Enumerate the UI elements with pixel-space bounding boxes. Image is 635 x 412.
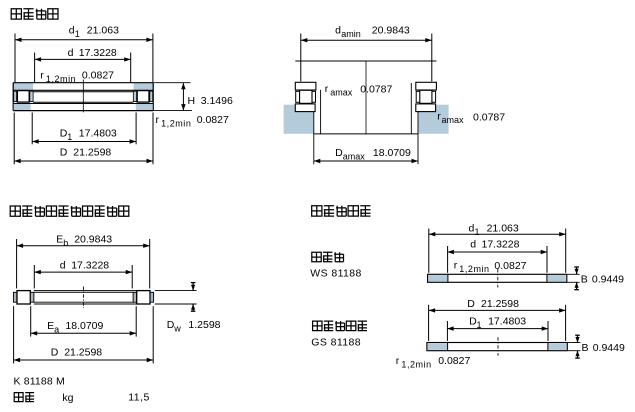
shaft washer WS: blue cross sections xyxy=(429,275,448,281)
svg-text:0.0827: 0.0827 xyxy=(438,355,470,367)
cage inner bar right xyxy=(133,292,137,302)
svg-text:d: d xyxy=(68,47,74,59)
housing washer GS: body xyxy=(427,343,567,351)
dim B (GS): arrows xyxy=(577,335,579,342)
dim Ea: extension lines xyxy=(30,306,32,336)
svg-text:20.9843: 20.9843 xyxy=(372,24,410,36)
svg-text:amax: amax xyxy=(343,152,366,162)
svg-text:0.0827: 0.0827 xyxy=(82,69,114,81)
svg-text:H: H xyxy=(188,95,196,107)
right column: shaft washer cross-section xyxy=(416,82,437,90)
dim d (WS): dimension line with arrows xyxy=(447,251,547,253)
cage middle section xyxy=(34,290,150,292)
svg-text:17.4803: 17.4803 xyxy=(488,315,526,327)
dim d1 (WS): extension lines xyxy=(428,229,430,273)
dim Dw: vertical dimension line with outside arrows xyxy=(192,283,194,291)
svg-text:B: B xyxy=(581,274,588,286)
svg-text:d: d xyxy=(335,24,341,36)
dim D1 (GS): extension lines xyxy=(446,321,448,341)
dim d (WS): extension lines xyxy=(447,246,449,273)
dim D: dimension line with arrows xyxy=(14,160,153,162)
right column: cage and roller xyxy=(416,91,420,102)
bearing shaft washer (top) with blue end sections xyxy=(14,83,33,90)
housing block left (blue) xyxy=(284,105,314,134)
dim B (GS): tick lines xyxy=(568,342,580,344)
dim D: extension lines xyxy=(13,113,15,165)
svg-text:21.2598: 21.2598 xyxy=(73,146,111,158)
svg-text:kg: kg xyxy=(62,392,73,404)
roller left xyxy=(17,291,30,304)
housing washer GS: centerline xyxy=(497,337,499,356)
mass label (Chinese) + kg + value xyxy=(14,393,34,402)
svg-text:1.2598: 1.2598 xyxy=(188,319,220,331)
svg-text:21.063: 21.063 xyxy=(87,24,119,36)
svg-text:1,2min: 1,2min xyxy=(401,360,431,370)
svg-text:1: 1 xyxy=(475,227,480,237)
dim Dw: tick lines xyxy=(155,290,197,292)
svg-text:1: 1 xyxy=(75,29,80,39)
svg-text:amax: amax xyxy=(442,115,465,125)
svg-text:r: r xyxy=(40,69,44,81)
svg-text:0.9449: 0.9449 xyxy=(592,274,624,286)
dim d1: extension lines xyxy=(14,34,16,83)
svg-text:1,2min: 1,2min xyxy=(459,264,489,274)
cage inner bar left xyxy=(30,292,34,302)
svg-text:D: D xyxy=(51,346,59,358)
inner bore vertical lines xyxy=(320,90,322,134)
svg-text:17.3228: 17.3228 xyxy=(71,259,109,271)
label: shaft washer (Chinese) WS 81188 xyxy=(312,252,344,261)
dim Eb: extension lines xyxy=(16,239,18,288)
figure centerline xyxy=(365,61,367,134)
svg-text:0.9449: 0.9449 xyxy=(593,342,625,354)
svg-text:0.0827: 0.0827 xyxy=(494,260,526,272)
svg-text:D: D xyxy=(60,146,68,158)
svg-text:K 81188 M: K 81188 M xyxy=(14,376,65,388)
svg-text:E: E xyxy=(56,234,63,246)
dim Eb: dimension line with arrows xyxy=(17,245,150,247)
dim Da_max: dimension line with arrows xyxy=(314,160,418,162)
left column: shaft washer cross-section xyxy=(295,82,316,90)
svg-text:17.3228: 17.3228 xyxy=(482,239,520,251)
dim H: vertical dimension line with arrows xyxy=(182,83,184,111)
dim H: tick lines xyxy=(153,82,190,84)
svg-text:d: d xyxy=(470,239,476,251)
svg-text:B: B xyxy=(582,342,589,354)
svg-text:1,2min: 1,2min xyxy=(161,119,191,129)
dim D (GS): extension lines xyxy=(428,305,430,341)
svg-text:11,5: 11,5 xyxy=(128,392,150,404)
svg-text:r: r xyxy=(156,114,160,126)
cage outer bar left xyxy=(13,292,17,302)
label: housing washer (Chinese) GS 81188 xyxy=(313,321,367,331)
dim d1: dimension line with arrows xyxy=(15,39,153,41)
svg-text:amin: amin xyxy=(341,29,361,39)
housing block right (blue) xyxy=(418,105,448,134)
svg-text:WS 81188: WS 81188 xyxy=(310,268,361,280)
svg-text:D: D xyxy=(467,298,475,310)
section title: complete bearing (Chinese) xyxy=(11,9,58,19)
cage outer bar right xyxy=(150,292,154,302)
svg-text:r: r xyxy=(325,83,329,95)
housing washer seat verticals (Da extension) xyxy=(313,112,315,165)
assembly centerline xyxy=(83,287,85,309)
svg-text:21.2598: 21.2598 xyxy=(481,298,519,310)
svg-text:0.0787: 0.0787 xyxy=(473,112,505,124)
dim D (GS): dimension line with arrows xyxy=(429,309,566,311)
dim d1 (WS): dimension line with arrows xyxy=(429,233,566,235)
dim d: extension lines xyxy=(34,53,36,83)
housing washer GS: blue cross sections xyxy=(428,343,448,350)
svg-text:1: 1 xyxy=(477,320,482,330)
svg-text:a: a xyxy=(54,325,59,335)
dim B (WS): tick lines xyxy=(567,273,579,275)
svg-text:r: r xyxy=(454,260,458,272)
dim D: dimension line with arrows (assembly) xyxy=(14,359,154,361)
svg-text:21.2598: 21.2598 xyxy=(64,346,102,358)
dim D: extension lines (assembly) xyxy=(13,306,15,363)
shaft face top line xyxy=(295,60,436,62)
svg-text:18.0709: 18.0709 xyxy=(373,147,411,159)
dim D1 (GS): dimension line with arrows xyxy=(447,328,548,330)
svg-text:0.0827: 0.0827 xyxy=(197,114,229,126)
svg-text:E: E xyxy=(47,320,54,332)
housing bore bottom face line xyxy=(314,133,418,135)
svg-text:amax: amax xyxy=(330,87,353,97)
svg-text:21.063: 21.063 xyxy=(487,223,519,235)
bearing vertical centerline xyxy=(82,80,84,113)
svg-text:17.3228: 17.3228 xyxy=(79,47,117,59)
svg-text:r: r xyxy=(396,355,400,367)
right column: housing washer cross-section xyxy=(416,104,436,112)
dim d: extension lines (assembly) xyxy=(33,265,35,288)
section title: roller and cage thrust assembly (Chinese) xyxy=(10,206,129,216)
shaft washer WS: centerline xyxy=(497,269,499,288)
dim B (WS): arrows xyxy=(576,267,578,274)
left column: cage and roller xyxy=(296,91,300,102)
dim d: dimension line with arrows (assembly) xyxy=(34,271,132,273)
bearing housing washer (bottom) with blue end sections xyxy=(14,104,31,110)
svg-text:18.0709: 18.0709 xyxy=(65,320,103,332)
dim Ea: dimension line with arrows xyxy=(31,332,137,334)
dim da_min: extension lines xyxy=(300,34,302,82)
roller and cage row of bearing xyxy=(14,91,17,101)
svg-text:1: 1 xyxy=(67,132,72,142)
roller right xyxy=(137,291,150,304)
dim D1: extension lines xyxy=(31,113,33,145)
shaft washer WS: body xyxy=(428,274,567,282)
dim da_min: dimension line with arrows xyxy=(301,39,432,41)
svg-text:3.1496: 3.1496 xyxy=(201,95,233,107)
svg-text:d: d xyxy=(60,259,66,271)
dim D1: dimension line with arrows xyxy=(32,141,136,143)
svg-text:b: b xyxy=(63,238,68,248)
svg-text:GS 81188: GS 81188 xyxy=(311,337,361,349)
svg-text:17.4803: 17.4803 xyxy=(79,127,117,139)
raceway lines between rollers xyxy=(33,91,133,93)
dim d: dimension line with arrows xyxy=(35,58,131,60)
svg-text:20.9843: 20.9843 xyxy=(74,234,112,246)
svg-text:w: w xyxy=(173,324,181,334)
section title: suitable parts (Chinese) xyxy=(312,206,371,216)
left column: housing washer cross-section xyxy=(295,104,315,112)
svg-text:0.0787: 0.0787 xyxy=(360,83,392,95)
